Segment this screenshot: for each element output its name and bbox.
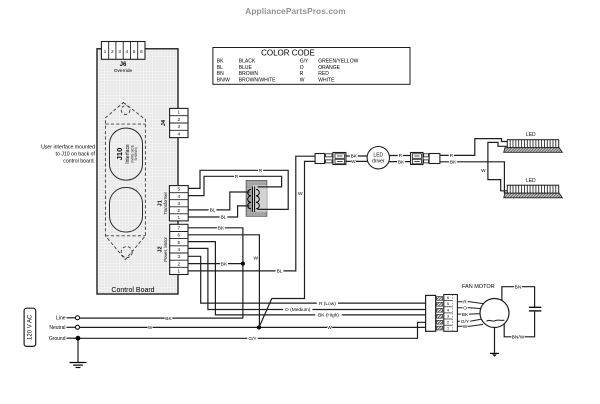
svg-text:BL: BL: [277, 269, 283, 275]
svg-text:Ground: Ground: [49, 336, 66, 342]
svg-text:120 V AC: 120 V AC: [28, 314, 34, 340]
svg-text:ORANGE: ORANGE: [318, 65, 340, 71]
svg-text:2: 2: [178, 117, 181, 122]
svg-text:O: O: [463, 306, 467, 312]
svg-text:5: 5: [178, 240, 181, 245]
svg-text:BK (High): BK (High): [318, 313, 339, 319]
svg-text:BL: BL: [210, 208, 216, 214]
svg-text:driver: driver: [372, 159, 385, 165]
svg-text:5: 5: [133, 49, 136, 54]
svg-text:to J10 on back of: to J10 on back of: [55, 152, 95, 158]
svg-text:W: W: [351, 159, 356, 165]
svg-text:J4: J4: [161, 119, 167, 126]
svg-text:FAN MOTOR: FAN MOTOR: [462, 284, 495, 290]
svg-text:BLUE: BLUE: [239, 65, 253, 71]
svg-text:G/Y: G/Y: [248, 336, 257, 342]
svg-text:control board.: control board.: [63, 158, 95, 164]
svg-text:5: 5: [178, 187, 181, 192]
svg-text:W: W: [253, 255, 258, 261]
svg-text:W: W: [300, 77, 305, 83]
svg-text:LED: LED: [526, 178, 536, 184]
svg-text:4: 4: [126, 49, 129, 54]
svg-text:1: 1: [178, 110, 181, 115]
svg-text:3: 3: [178, 124, 181, 129]
svg-text:Transformer: Transformer: [163, 191, 168, 214]
svg-text:6: 6: [140, 49, 143, 54]
svg-text:7: 7: [178, 226, 181, 231]
svg-text:3: 3: [178, 201, 181, 206]
svg-text:GREEN/YELLOW: GREEN/YELLOW: [318, 59, 358, 65]
svg-text:4: 4: [178, 194, 181, 199]
svg-text:BK: BK: [450, 160, 457, 166]
svg-text:W: W: [327, 325, 332, 331]
svg-text:Override: Override: [114, 68, 133, 74]
svg-text:O (Medium): O (Medium): [285, 307, 311, 313]
svg-text:R: R: [235, 174, 239, 180]
svg-text:6: 6: [178, 233, 181, 238]
svg-text:R: R: [399, 153, 403, 159]
svg-text:BROWN: BROWN: [239, 71, 259, 77]
svg-text:R: R: [259, 168, 263, 174]
svg-text:BK: BK: [462, 312, 469, 318]
svg-text:User interface mounted: User interface mounted: [41, 145, 95, 151]
svg-text:BK: BK: [217, 59, 224, 65]
svg-text:BN: BN: [217, 71, 224, 77]
svg-text:R (Low): R (Low): [319, 301, 336, 307]
svg-text:R: R: [300, 71, 304, 77]
svg-text:3: 3: [118, 49, 121, 54]
svg-text:W: W: [298, 191, 303, 197]
svg-text:J6: J6: [120, 62, 127, 68]
svg-text:W: W: [463, 324, 468, 330]
svg-text:1: 1: [178, 269, 181, 274]
svg-text:2: 2: [111, 49, 114, 54]
svg-text:BL: BL: [217, 65, 223, 71]
svg-text:BK: BK: [165, 316, 172, 322]
svg-text:BROWN/WHITE: BROWN/WHITE: [239, 77, 276, 83]
svg-text:BK: BK: [221, 261, 228, 267]
svg-text:RED: RED: [318, 71, 329, 77]
svg-text:1: 1: [104, 49, 107, 54]
svg-text:SHOWN): SHOWN): [134, 147, 138, 160]
svg-text:Power, Motor: Power, Motor: [163, 236, 168, 261]
svg-text:2: 2: [178, 208, 181, 213]
svg-text:R: R: [463, 300, 467, 306]
svg-text:BN/W: BN/W: [217, 77, 230, 83]
svg-text:BL: BL: [221, 215, 227, 221]
svg-text:WHITE: WHITE: [318, 77, 335, 83]
svg-text:4: 4: [178, 132, 181, 137]
svg-text:3: 3: [178, 254, 181, 259]
svg-text:BLACK: BLACK: [239, 59, 256, 65]
svg-text:G/Y: G/Y: [300, 59, 309, 65]
svg-text:O: O: [300, 65, 304, 71]
svg-text:W: W: [481, 168, 486, 174]
svg-text:Neutral: Neutral: [49, 325, 65, 331]
svg-text:BN/W: BN/W: [512, 335, 525, 341]
svg-text:BK: BK: [218, 226, 225, 232]
svg-text:2: 2: [178, 261, 181, 266]
svg-text:1: 1: [178, 215, 181, 220]
svg-text:BK: BK: [398, 159, 405, 165]
svg-text:LED: LED: [526, 132, 536, 138]
svg-text:J10: J10: [115, 148, 124, 161]
svg-text:Line: Line: [56, 316, 66, 322]
svg-text:Control Board: Control Board: [111, 287, 154, 294]
svg-text:4: 4: [178, 247, 181, 252]
svg-text:R: R: [450, 153, 454, 159]
svg-text:AppliancePartsPros.com: AppliancePartsPros.com: [245, 6, 345, 16]
svg-text:BN: BN: [515, 284, 522, 290]
svg-text:W: W: [148, 325, 153, 331]
svg-text:COLOR CODE: COLOR CODE: [261, 49, 315, 58]
